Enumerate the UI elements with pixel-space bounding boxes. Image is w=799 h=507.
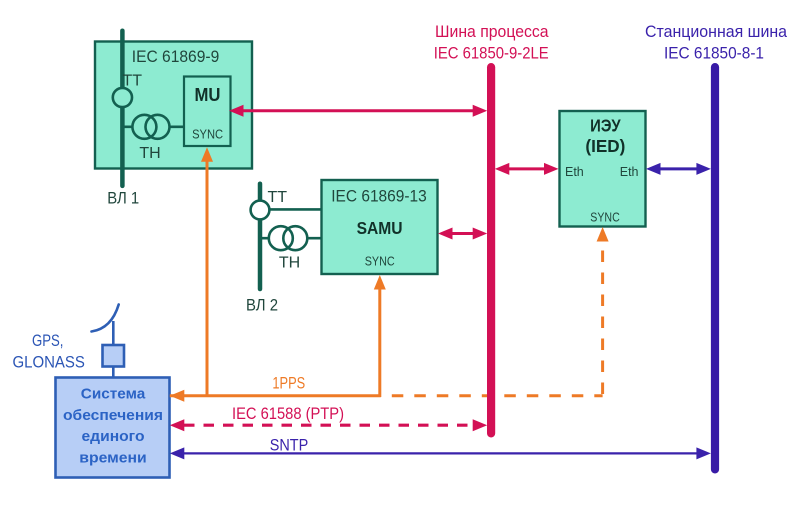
wire CT to SAMU bbox=[260, 208, 322, 211]
CT circle TT on VL1 bbox=[113, 88, 132, 107]
arrowhead MU-line into process bus bbox=[473, 105, 488, 117]
VT transformer circles VL2 bbox=[269, 226, 293, 250]
svg-text:MU: MU bbox=[195, 84, 221, 105]
svg-text:1PPS: 1PPS bbox=[272, 375, 305, 393]
process bus bar bbox=[487, 63, 495, 438]
feeder line VL1 bbox=[120, 31, 125, 186]
svg-text:SYNC: SYNC bbox=[365, 254, 395, 268]
svg-text:обеспечения: обеспечения bbox=[63, 407, 163, 424]
svg-text:SYNC: SYNC bbox=[590, 211, 620, 225]
svg-text:ВЛ 1: ВЛ 1 bbox=[107, 190, 139, 208]
arrowhead 1PPS into time system box bbox=[170, 390, 185, 402]
svg-text:Станционная шина: Станционная шина bbox=[645, 23, 788, 41]
arrowhead SNTP into time system box bbox=[170, 447, 185, 459]
wire VT to MU box bbox=[122, 126, 184, 129]
wire 1PPS vertical dashed segment to IED SYNC bbox=[601, 242, 604, 394]
svg-text:IEC 61850-8-1: IEC 61850-8-1 bbox=[664, 45, 764, 63]
wire MU to process bus crimson double arrow bbox=[242, 109, 474, 112]
block SAMU IEC 61869-13 bbox=[322, 180, 438, 274]
wire IED to station bus blue double arrow bbox=[659, 167, 698, 170]
wire process bus to IED crimson double arrow bbox=[508, 167, 546, 170]
svg-text:GLONASS: GLONASS bbox=[12, 354, 85, 372]
arrowhead PTP into process bus bbox=[473, 419, 488, 431]
svg-text:ТТ: ТТ bbox=[268, 189, 288, 206]
svg-text:SAMU: SAMU bbox=[357, 218, 403, 238]
svg-text:Eth: Eth bbox=[565, 165, 584, 179]
wire antenna to time box bbox=[112, 367, 115, 378]
svg-text:SYNC: SYNC bbox=[192, 127, 223, 141]
svg-text:времени: времени bbox=[79, 450, 147, 467]
arrowhead IED-line into station bus bbox=[696, 163, 711, 175]
block IED bbox=[560, 111, 646, 227]
wire SNTP blue bbox=[181, 452, 698, 454]
feeder line VL2 bbox=[258, 184, 263, 289]
svg-text:SNTP: SNTP bbox=[270, 436, 309, 454]
station bus bar bbox=[711, 63, 719, 474]
svg-text:ТН: ТН bbox=[279, 255, 300, 272]
wire 1PPS vertical branch to SAMU SYNC bbox=[378, 289, 381, 398]
block time system bbox=[56, 378, 170, 478]
wire IEC 61588 (PTP) dashed crimson bbox=[184, 424, 474, 427]
arrowhead 1PPS into SAMU SYNC bbox=[374, 275, 386, 290]
VT transformer circles VL1 bbox=[132, 115, 156, 139]
arrowhead into IED left Eth bbox=[544, 163, 559, 175]
svg-text:IEC 61869-9: IEC 61869-9 bbox=[132, 48, 220, 66]
feeder line VL1 inside block bbox=[120, 42, 125, 168]
wire SAMU to process bus crimson double arrow bbox=[450, 232, 474, 235]
arrowhead 1PPS into MU SYNC bbox=[201, 147, 213, 162]
arrowhead into IED right Eth bbox=[646, 163, 661, 175]
svg-text:Шина процесса: Шина процесса bbox=[435, 23, 549, 41]
svg-text:(IED): (IED) bbox=[585, 136, 625, 156]
svg-text:ВЛ 2: ВЛ 2 bbox=[246, 296, 278, 314]
arrowhead 1PPS into IED SYNC bbox=[597, 227, 609, 242]
GPS antenna mast bbox=[112, 321, 115, 345]
svg-text:ИЭУ: ИЭУ bbox=[590, 116, 621, 136]
svg-text:Eth: Eth bbox=[620, 165, 639, 179]
svg-text:единого: единого bbox=[82, 428, 145, 445]
svg-text:GPS,: GPS, bbox=[32, 332, 64, 350]
arrowhead into MU bbox=[229, 105, 244, 117]
GPS antenna arc bbox=[92, 305, 119, 332]
GPS antenna square bbox=[103, 345, 125, 367]
svg-text:Система: Система bbox=[81, 385, 146, 402]
arrowhead into SAMU bbox=[438, 228, 453, 240]
inner box MU bbox=[184, 77, 231, 147]
block MU outer IEC 61869-9 bbox=[95, 42, 252, 169]
wire 1PPS horizontal solid segment bbox=[170, 394, 381, 397]
arrowhead SNTP into station bus bbox=[696, 447, 711, 459]
svg-text:IEC 61588 (PTP): IEC 61588 (PTP) bbox=[232, 405, 344, 423]
svg-text:IEC 61850-9-2LE: IEC 61850-9-2LE bbox=[434, 45, 549, 63]
arrowhead PTP into time system box bbox=[170, 419, 185, 431]
wire VT to SAMU bbox=[260, 237, 322, 240]
wire 1PPS vertical branch to MU SYNC bbox=[206, 161, 209, 398]
svg-text:ТН: ТН bbox=[139, 145, 160, 162]
wire 1PPS horizontal dashed segment bbox=[381, 394, 603, 397]
CT circle TT on VL2 bbox=[251, 201, 270, 220]
arrowhead SAMU-line into process bus bbox=[473, 228, 488, 240]
svg-text:ТТ: ТТ bbox=[123, 72, 143, 89]
svg-text:IEC 61869-13: IEC 61869-13 bbox=[331, 187, 427, 205]
arrowhead IED-line into process bus bbox=[495, 163, 510, 175]
